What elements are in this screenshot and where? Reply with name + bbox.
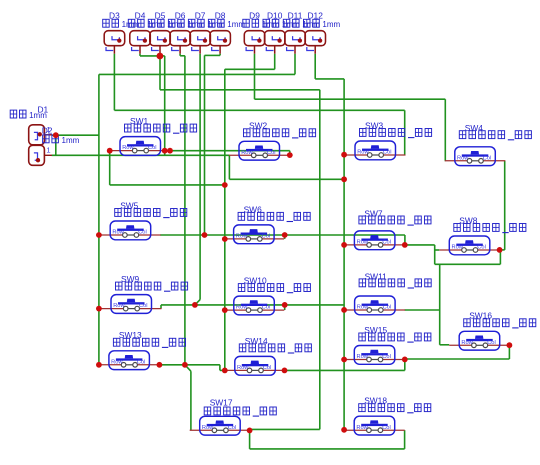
switch SW2	[229, 121, 316, 160]
svg-text:D10: D10	[267, 10, 283, 20]
wire row1 SW1 to SW2	[165, 150, 290, 152]
svg-text:Col: Col	[382, 425, 391, 431]
connector D7	[188, 10, 225, 53]
wire D9 to SW4	[254, 54, 256, 99]
switch SW16	[449, 311, 536, 350]
wire D11 to left rail	[294, 54, 296, 75]
wire D2 row to SW2	[52, 154, 230, 156]
connector D4	[128, 10, 165, 53]
switch SW9	[101, 274, 188, 313]
svg-text:D7: D7	[195, 10, 206, 20]
wire col4 down to SW16	[439, 264, 441, 345]
svg-text:Row: Row	[202, 425, 214, 431]
svg-text:Row: Row	[357, 150, 369, 156]
svg-text:Col: Col	[382, 354, 391, 360]
switch SW18	[344, 396, 431, 435]
svg-text:Col: Col	[139, 303, 148, 309]
wire D3 to SW3 col net	[113, 54, 115, 111]
svg-text:Row: Row	[237, 365, 249, 371]
switch SW3	[345, 120, 432, 159]
svg-text:Row: Row	[236, 234, 248, 240]
wire SW2 left down to x344	[228, 155, 230, 179]
wire row4 SW13 to SW14	[159, 364, 220, 366]
svg-text:Row: Row	[111, 359, 123, 365]
svg-text:1mm: 1mm	[302, 20, 320, 29]
svg-text:D3: D3	[109, 10, 120, 20]
svg-text:1mm: 1mm	[262, 20, 280, 29]
wire SW6 col hook	[284, 235, 286, 239]
switch SW11	[345, 271, 432, 314]
svg-text:Row: Row	[357, 354, 369, 360]
svg-text:1mm: 1mm	[322, 20, 340, 29]
svg-text:SW7: SW7	[364, 209, 382, 219]
svg-text:Col: Col	[263, 365, 272, 371]
switch SW15	[344, 325, 431, 364]
connector D1	[29, 125, 52, 145]
connector D6	[168, 10, 205, 53]
wire D7 down with elbow	[199, 54, 201, 300]
wire SW8 left stub	[435, 249, 440, 251]
svg-text:D4: D4	[135, 10, 146, 20]
svg-text:D12: D12	[308, 10, 324, 20]
svg-text:Col: Col	[477, 245, 486, 251]
connector D9	[243, 10, 280, 53]
svg-text:D9: D9	[249, 10, 260, 20]
svg-text:D5: D5	[155, 10, 166, 20]
svg-text:1mm: 1mm	[62, 136, 80, 145]
svg-text:SW17: SW17	[210, 398, 233, 408]
svg-text:SW4: SW4	[465, 123, 483, 133]
svg-text:1mm: 1mm	[147, 20, 165, 29]
svg-text:Row: Row	[356, 425, 368, 431]
wire x320 bottom to SW17	[250, 428, 320, 430]
wire D8 down	[219, 54, 221, 56]
svg-text:Row: Row	[357, 240, 369, 246]
svg-text:D6: D6	[175, 10, 186, 20]
wire SW16 right to SW15	[508, 345, 510, 359]
svg-text:D11: D11	[288, 10, 303, 20]
switch SW7	[344, 209, 431, 250]
connector D10	[263, 10, 300, 53]
svg-text:Col: Col	[262, 234, 271, 240]
wire row3 SW9 to SW11	[160, 305, 162, 309]
switch SW4	[445, 123, 532, 165]
svg-text:Col: Col	[382, 240, 391, 246]
svg-text:Col: Col	[148, 145, 157, 151]
connector D2	[29, 145, 52, 165]
switch SW8	[439, 215, 526, 254]
wire SW14 right to SW15	[285, 369, 405, 371]
wire SW1 left down	[109, 151, 111, 185]
svg-text:Row: Row	[122, 145, 134, 151]
switch SW14	[225, 336, 312, 375]
svg-text:Col: Col	[383, 150, 392, 156]
svg-text:1mm: 1mm	[207, 20, 225, 29]
switch SW13	[99, 330, 186, 369]
svg-text:Row: Row	[357, 305, 369, 311]
wire SW17 right loop to SW18	[249, 430, 251, 449]
wire D5 junction down	[159, 54, 161, 90]
svg-text:Col: Col	[138, 230, 147, 236]
svg-text:1mm: 1mm	[167, 20, 185, 29]
wire D4 to junction	[139, 54, 141, 56]
wire D1 net	[52, 134, 99, 136]
svg-text:Row: Row	[461, 340, 473, 346]
junction dots	[157, 53, 164, 60]
svg-text:SW11: SW11	[365, 271, 388, 281]
svg-text:Col: Col	[137, 359, 146, 365]
svg-text:Row: Row	[113, 303, 125, 309]
connector D8	[208, 10, 245, 53]
wire D12 column x344	[314, 54, 316, 79]
svg-text:Col: Col	[262, 305, 271, 311]
svg-text:Row: Row	[241, 150, 253, 156]
svg-text:Row: Row	[112, 230, 124, 236]
wire D1 branch down	[55, 135, 57, 155]
wire SW7 right to col4 drop	[405, 244, 435, 246]
svg-text:1mm: 1mm	[29, 111, 47, 120]
wire D10 column	[274, 54, 276, 70]
wire SW17 riser	[190, 371, 192, 430]
svg-text:Col: Col	[228, 425, 237, 431]
wire net y90 to x320 drop	[160, 89, 320, 91]
wire SW10 col hook	[284, 305, 286, 310]
svg-text:1mm: 1mm	[282, 20, 300, 29]
svg-text:Col: Col	[383, 305, 392, 311]
connector D12	[304, 10, 341, 53]
connector D5	[148, 10, 185, 53]
switch SW1	[110, 116, 197, 155]
wire row2 SW5 to SW7	[160, 234, 405, 236]
svg-text:D2: D2	[42, 126, 53, 136]
svg-text:1mm: 1mm	[187, 20, 205, 29]
svg-text:1: 1	[46, 145, 50, 154]
svg-text:Row: Row	[457, 155, 469, 161]
switch SW5	[100, 200, 187, 239]
switch SW17	[190, 398, 277, 435]
svg-text:1mm: 1mm	[122, 20, 140, 29]
svg-text:Col: Col	[487, 340, 496, 346]
switch SW6	[224, 204, 311, 243]
connector D3	[103, 10, 140, 53]
wire SW8 right drop	[504, 161, 506, 250]
svg-text:Row: Row	[236, 305, 248, 311]
svg-text:Col: Col	[267, 150, 276, 156]
wire junction riser to SW1 col	[160, 55, 165, 57]
wire left rail x99	[98, 74, 100, 364]
wire SW11 right to col4	[405, 309, 440, 311]
switch SW10	[224, 276, 311, 315]
wire D6 down	[179, 54, 181, 56]
svg-text:Col: Col	[483, 155, 492, 161]
connector D11	[283, 10, 320, 53]
svg-text:Row: Row	[452, 245, 464, 251]
svg-text:D8: D8	[215, 10, 226, 20]
